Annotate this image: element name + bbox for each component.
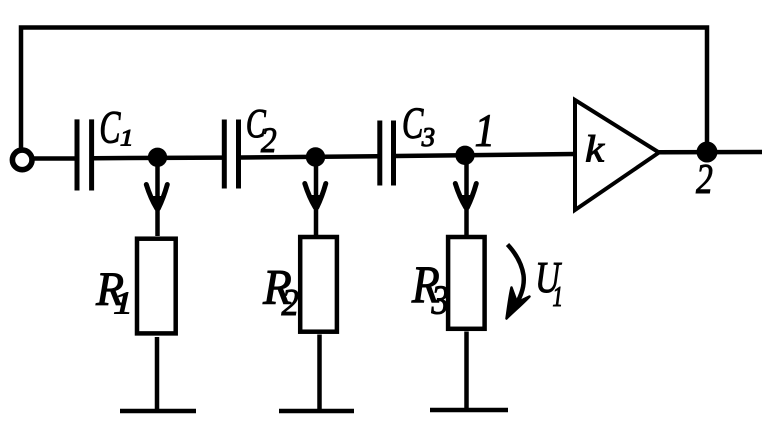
svg-text:k: k <box>585 128 605 170</box>
svg-text:2: 2 <box>261 121 277 160</box>
svg-text:1: 1 <box>553 282 563 313</box>
svg-text:1: 1 <box>120 126 133 151</box>
svg-text:2: 2 <box>696 157 713 203</box>
svg-text:3: 3 <box>431 278 449 323</box>
svg-text:1: 1 <box>475 105 495 156</box>
svg-text:2: 2 <box>282 280 299 323</box>
svg-text:3: 3 <box>421 122 435 153</box>
svg-text:C: C <box>99 102 120 153</box>
svg-text:1: 1 <box>113 285 133 321</box>
